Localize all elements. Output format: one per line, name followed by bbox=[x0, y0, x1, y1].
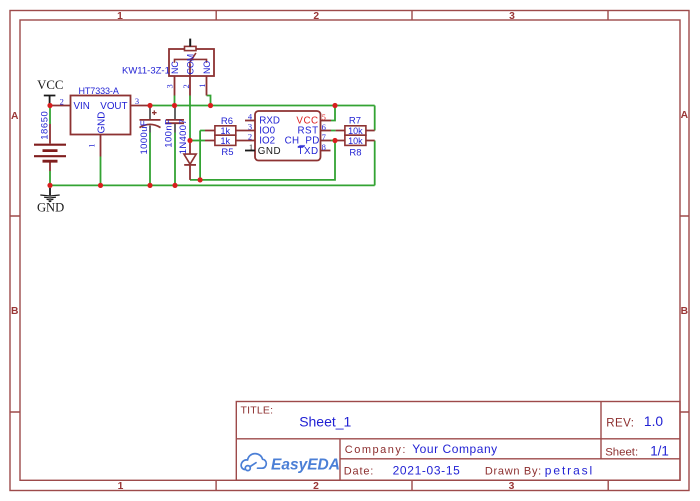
chip pin 8 bbox=[321, 150, 331, 152]
wire VCC rail down to R7 right bbox=[374, 106, 376, 131]
svg-text:KW11-3Z-1: KW11-3Z-1 bbox=[122, 66, 170, 77]
svg-text:100nF: 100nF bbox=[164, 119, 175, 148]
svg-text:EasyEDA: EasyEDA bbox=[271, 456, 340, 473]
wire battery bottom bbox=[49, 171, 51, 185]
svg-text:GND: GND bbox=[37, 201, 64, 215]
junction GND-C1 bbox=[147, 183, 152, 188]
svg-text:1/1: 1/1 bbox=[650, 444, 669, 459]
wire chip pin7 to R8 bbox=[331, 140, 336, 142]
svg-text:VOUT: VOUT bbox=[100, 101, 127, 112]
svg-text:7: 7 bbox=[322, 132, 326, 142]
wire R6 left down to cathode line bbox=[200, 131, 205, 180]
svg-text:Sheet:: Sheet: bbox=[605, 447, 638, 459]
svg-text:NO: NO bbox=[202, 61, 212, 74]
wire cap C2 bottom bbox=[174, 133, 176, 186]
svg-text:2: 2 bbox=[248, 132, 252, 142]
svg-text:Drawn By:: Drawn By: bbox=[485, 466, 542, 478]
svg-text:2: 2 bbox=[313, 11, 319, 22]
junction NO-rail bbox=[208, 103, 213, 108]
wire chip pin5 to VCC rail bbox=[331, 106, 335, 121]
svg-text:Your Company: Your Company bbox=[412, 442, 498, 456]
svg-text:2: 2 bbox=[181, 84, 191, 88]
svg-text:3: 3 bbox=[135, 96, 139, 106]
svg-text:10k: 10k bbox=[348, 136, 363, 146]
svg-text:COM: COM bbox=[186, 54, 196, 75]
frame left ticks bbox=[10, 216, 20, 412]
chip pin 1 GND bbox=[245, 150, 255, 152]
net flag VCC bbox=[37, 78, 63, 104]
switch SW KW11-3Z-1 bbox=[122, 39, 214, 96]
wire VCC rail VOUT to right bbox=[50, 96, 375, 186]
svg-text:2: 2 bbox=[60, 96, 64, 106]
svg-text:3: 3 bbox=[509, 11, 515, 22]
svg-text:1N4007: 1N4007 bbox=[178, 119, 189, 154]
wire regulator pin1 to GND rail bbox=[100, 157, 102, 186]
svg-text:5: 5 bbox=[322, 112, 326, 122]
svg-text:Date:: Date: bbox=[344, 466, 374, 478]
chip TXD overline bbox=[298, 145, 305, 147]
svg-text:3: 3 bbox=[248, 122, 252, 132]
svg-text:1: 1 bbox=[249, 142, 253, 152]
junction NC-C2-rail bbox=[172, 103, 177, 108]
svg-text:18650: 18650 bbox=[39, 111, 50, 140]
svg-text:VCC: VCC bbox=[37, 78, 63, 92]
svg-text:TITLE:: TITLE: bbox=[241, 405, 274, 417]
junction diode-R6 bbox=[198, 177, 203, 182]
svg-text:B: B bbox=[11, 306, 18, 317]
svg-text:3: 3 bbox=[165, 84, 175, 88]
wire battery top bbox=[49, 106, 51, 124]
resistor R5 1k bbox=[205, 135, 255, 158]
switch pin NC bbox=[174, 76, 176, 96]
svg-text:Company:: Company: bbox=[345, 444, 407, 456]
chip pin 5 VCC bbox=[321, 120, 332, 122]
svg-text:10k: 10k bbox=[348, 126, 363, 136]
svg-text:6: 6 bbox=[322, 122, 326, 132]
wire R8 right down to GND rail bbox=[374, 141, 376, 186]
EasyEDA logo cloud bbox=[241, 454, 266, 471]
svg-text:R7: R7 bbox=[349, 116, 361, 127]
junction COM-R5-diode bbox=[187, 138, 192, 143]
svg-text:R5: R5 bbox=[221, 147, 233, 158]
pin 3 VOUT bbox=[131, 105, 151, 107]
chip pin 7 bbox=[321, 140, 332, 142]
svg-text:1: 1 bbox=[118, 481, 124, 492]
svg-text:1.0: 1.0 bbox=[644, 414, 664, 429]
net flag GND (earth) bbox=[37, 188, 64, 215]
junction GND-pin1 bbox=[98, 183, 103, 188]
svg-text:1: 1 bbox=[197, 84, 207, 88]
svg-text:A: A bbox=[11, 111, 19, 122]
switch pin NO bbox=[206, 76, 208, 96]
resistor R7 10k bbox=[336, 116, 375, 136]
svg-text:1: 1 bbox=[117, 11, 123, 22]
svg-text:B: B bbox=[681, 306, 688, 317]
frame bottom ticks bbox=[216, 480, 608, 490]
svg-text:TXD: TXD bbox=[297, 146, 318, 157]
svg-text:R8: R8 bbox=[349, 148, 361, 159]
pin 2 VIN bbox=[50, 105, 71, 107]
junction GND-C2 bbox=[172, 183, 177, 188]
wire chip pin6 to R7 bbox=[331, 130, 336, 132]
svg-text:Sheet_1: Sheet_1 bbox=[299, 413, 351, 429]
junction GND-battery bbox=[47, 183, 52, 188]
diode D 1N4007 bbox=[178, 119, 196, 180]
svg-text:GND: GND bbox=[97, 112, 108, 134]
svg-text:1k: 1k bbox=[221, 136, 231, 146]
chip pin 4 bbox=[245, 120, 255, 122]
wire GND bottom rail bbox=[50, 184, 375, 186]
switch lever bbox=[189, 53, 196, 63]
wire switch COM down to diode bbox=[189, 96, 191, 141]
regulator U HT7333-A bbox=[50, 86, 150, 156]
svg-text:1k: 1k bbox=[221, 126, 231, 136]
junction CH_PD-R8-diode bbox=[332, 138, 337, 143]
junction VCC-battery-VIN bbox=[47, 103, 52, 108]
svg-text:8: 8 bbox=[322, 142, 326, 152]
frame top ticks bbox=[216, 11, 608, 21]
svg-text:HT7333-A: HT7333-A bbox=[79, 86, 119, 96]
wire switch NC to rail bbox=[174, 96, 176, 106]
title block outline bbox=[236, 402, 680, 481]
battery BT 18650 bbox=[34, 111, 66, 171]
junction dots bbox=[47, 103, 337, 188]
svg-text:REV:: REV: bbox=[606, 417, 634, 429]
svg-text:R6: R6 bbox=[221, 116, 233, 127]
capacitor C1 1000uF bbox=[139, 107, 161, 155]
wire R5 left to COM node bbox=[190, 140, 205, 142]
svg-text:GND: GND bbox=[258, 146, 281, 157]
svg-text:2: 2 bbox=[313, 481, 319, 492]
junction VOUT-C1-rail bbox=[147, 103, 152, 108]
wire diode cathode to CH_PD bbox=[190, 141, 335, 180]
switch COM stem bbox=[189, 63, 191, 95]
wire cap C1 bottom bbox=[149, 133, 151, 186]
svg-text:VIN: VIN bbox=[74, 101, 90, 112]
pin 1 GND bbox=[100, 135, 102, 157]
switch contact bar bbox=[175, 59, 207, 62]
svg-text:petrasl: petrasl bbox=[545, 464, 594, 478]
svg-text:3: 3 bbox=[509, 481, 515, 492]
resistor R8 10k bbox=[336, 135, 375, 158]
switch plunger bbox=[185, 46, 197, 50]
junction rail-pin5 bbox=[332, 103, 337, 108]
svg-text:NC: NC bbox=[170, 61, 180, 74]
chip U1 ESP-01 bbox=[245, 111, 331, 161]
frame right ticks bbox=[680, 216, 689, 412]
resistor R6 1k bbox=[205, 116, 255, 136]
svg-text:A: A bbox=[681, 110, 689, 121]
svg-text:1: 1 bbox=[86, 144, 96, 148]
svg-text:1000uF: 1000uF bbox=[139, 120, 150, 155]
wire switch NO jog to rail bbox=[207, 96, 211, 106]
chip pin 6 bbox=[321, 130, 332, 132]
capacitor C2 100nF bbox=[164, 107, 184, 148]
svg-text:2021-03-15: 2021-03-15 bbox=[393, 464, 461, 478]
